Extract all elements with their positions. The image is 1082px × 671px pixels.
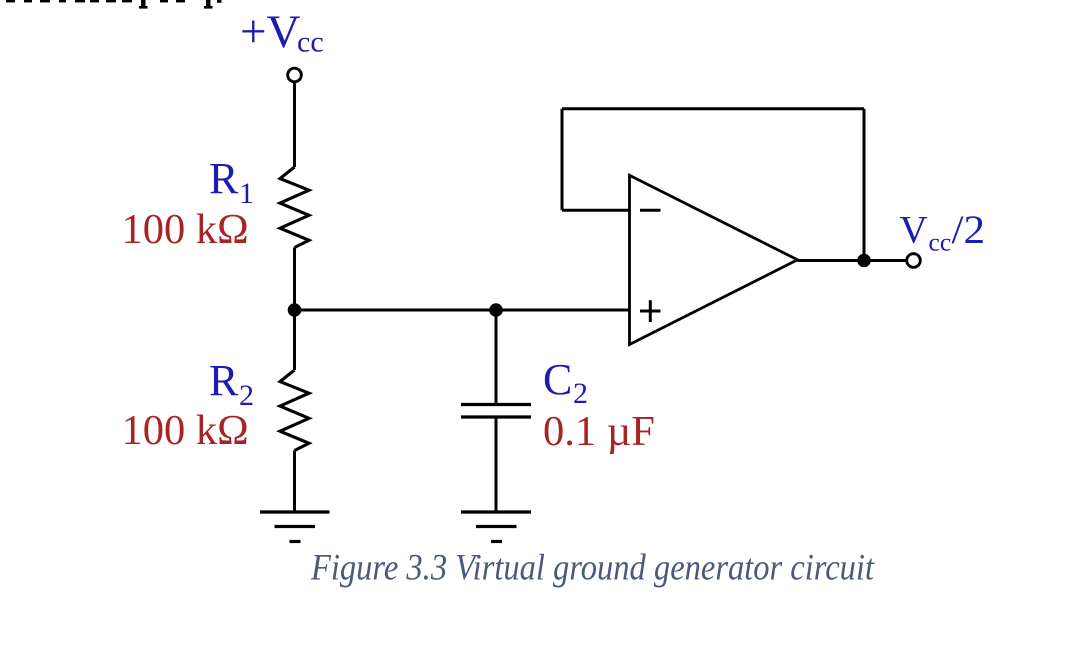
svg-text:0.1 µF: 0.1 µF — [543, 408, 655, 455]
svg-text:/2: /2 — [952, 207, 986, 252]
svg-text:R: R — [209, 356, 239, 405]
wire feedback: right vertical segment to output — [863, 109, 866, 261]
wire from R1 to node A — [293, 248, 296, 311]
label R1 — [209, 154, 254, 210]
inverting input pin label (minus) — [640, 209, 661, 212]
wire feedback: left vertical segment — [561, 109, 564, 210]
wire from +Vcc terminal to R1 — [293, 82, 296, 167]
wire from node B to capacitor C2 — [495, 310, 498, 405]
resistor R2 (zigzag) — [280, 370, 309, 451]
resistor R1 (zigzag) — [280, 167, 309, 248]
svg-text:2: 2 — [573, 377, 588, 410]
svg-text:C: C — [543, 355, 572, 404]
wire op-amp output — [798, 259, 907, 262]
output terminal (open circle) — [907, 254, 921, 268]
cropped text line at top (bottom of previous paragraph) — [6, 0, 222, 9]
svg-text:cc: cc — [929, 228, 952, 257]
svg-text:+V: +V — [240, 6, 301, 58]
wire feedback: minus input horizontal segment — [562, 209, 631, 212]
svg-text:Figure 3.3 Virtual ground gene: Figure 3.3 Virtual ground generator circ… — [310, 548, 875, 589]
node B (junction dot) — [489, 303, 503, 317]
terminal +Vcc (open circle) — [288, 68, 302, 82]
svg-text:cc: cc — [297, 26, 324, 59]
op-amp U1 (triangle) — [630, 175, 798, 344]
wire from R2 to ground — [293, 451, 296, 513]
label Vcc/2 — [900, 207, 986, 257]
ground (below R2) — [260, 512, 330, 542]
non-inverting input pin label (plus) — [640, 300, 661, 322]
node A (junction dot) — [288, 303, 302, 317]
svg-text:100 kΩ: 100 kΩ — [122, 407, 249, 454]
output node (junction dot) — [857, 254, 871, 268]
wire node A to op-amp + input (through node B) — [295, 309, 631, 312]
svg-text:V: V — [900, 209, 928, 252]
wire from node A to R2 — [293, 310, 296, 370]
ground (below C2) — [461, 512, 531, 542]
capacitor C2 (plates) — [461, 405, 531, 418]
svg-text:100 kΩ: 100 kΩ — [122, 206, 249, 253]
wire feedback: top horizontal segment — [562, 107, 864, 110]
wire from capacitor C2 to ground — [495, 417, 498, 512]
svg-text:R: R — [209, 154, 239, 203]
label +Vcc — [240, 6, 324, 59]
label C2 — [543, 355, 588, 410]
label R2 — [209, 356, 254, 412]
